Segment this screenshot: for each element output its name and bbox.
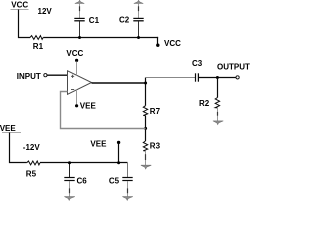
resistor R3 <box>143 129 160 166</box>
resistor R1 <box>30 36 43 40</box>
power flag VEE bottom-left <box>0 124 21 133</box>
wire output node to C3 (gray) <box>146 77 196 79</box>
wire output node riser down to R7 <box>145 78 147 106</box>
svg-text:R5: R5 <box>26 170 37 179</box>
svg-text:VCC: VCC <box>66 49 83 58</box>
VCC pin of op-amp <box>66 49 83 75</box>
VCC terminal right of rail <box>156 37 181 48</box>
capacitor C6 <box>64 163 87 197</box>
capacitor C2 <box>119 0 144 37</box>
svg-text:R3: R3 <box>150 141 161 150</box>
VEE pin of op-amp <box>75 90 96 111</box>
INPUT port <box>17 72 47 81</box>
junction dot C1 on rail <box>78 36 81 39</box>
svg-text:VCC: VCC <box>11 0 28 9</box>
op-amp U1 <box>68 71 92 95</box>
capacitor C1 <box>74 0 99 37</box>
VEE terminal mid bottom <box>90 140 120 163</box>
wire C3 to OUTPUT <box>199 77 236 79</box>
ground arrow below C5 <box>122 197 132 201</box>
junction dot VEE on rail <box>117 161 120 164</box>
junction dot OUTPUT node <box>216 76 219 79</box>
svg-text:12V: 12V <box>38 7 53 16</box>
svg-text:C2: C2 <box>119 16 130 25</box>
junction dot output node <box>144 82 147 85</box>
ground arrow below R2 <box>213 121 223 125</box>
junction dot C6 on rail <box>68 161 71 164</box>
svg-text:VCC: VCC <box>164 39 181 48</box>
wire VEE flag down to rail <box>10 133 27 163</box>
junction dot C2 on rail <box>137 36 140 39</box>
wire VEE rail bottom <box>40 162 128 164</box>
junction dot feedback node <box>144 127 147 130</box>
svg-text:C5: C5 <box>109 177 120 186</box>
svg-text:INPUT: INPUT <box>17 72 41 81</box>
resistor R7 <box>143 106 160 129</box>
capacitor C3 <box>192 59 203 82</box>
power flag VCC top-left <box>11 0 29 9</box>
svg-text:VEE: VEE <box>90 140 107 149</box>
wire INPUT to op-amp <box>47 74 68 76</box>
resistor R2 <box>199 78 220 121</box>
svg-text:C3: C3 <box>192 59 203 68</box>
OUTPUT port <box>217 62 250 79</box>
svg-text:VEE: VEE <box>80 102 97 111</box>
svg-text:C1: C1 <box>89 16 100 25</box>
svg-text:R1: R1 <box>33 42 44 51</box>
svg-text:OUTPUT: OUTPUT <box>217 62 250 71</box>
capacitor C5 <box>109 163 133 197</box>
wire VCC flag down to R1 <box>19 10 31 38</box>
svg-text:VEE: VEE <box>0 124 16 133</box>
svg-text:R2: R2 <box>199 99 210 108</box>
resistor R5 <box>27 161 40 165</box>
ground arrow below R3 <box>141 165 151 169</box>
svg-text:-12V: -12V <box>23 143 41 152</box>
wire op-amp output <box>92 82 147 84</box>
wire VCC rail top <box>43 37 158 39</box>
ground arrow below C6 <box>64 197 74 201</box>
svg-text:C6: C6 <box>77 177 88 186</box>
svg-text:R7: R7 <box>150 107 161 116</box>
wire feedback loop (gray) <box>61 92 146 129</box>
